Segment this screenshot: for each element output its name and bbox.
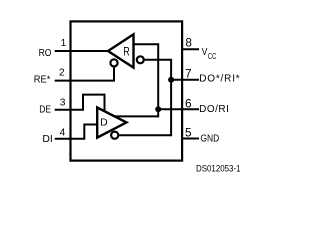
- wire pin7 DO*/RI*: [171, 79, 199, 81]
- wire pin5 GND: [182, 138, 199, 140]
- svg-text:DE: DE: [39, 105, 51, 116]
- wire pin8 VCC: [182, 48, 199, 50]
- svg-text:DS012053-1: DS012053-1: [196, 163, 241, 173]
- svg-text:2: 2: [59, 68, 65, 79]
- IC body U1: [71, 21, 183, 160]
- bubble D inverting output: [111, 132, 118, 139]
- svg-text:DI: DI: [42, 134, 52, 145]
- wire pin6 DO/RI: [158, 108, 199, 110]
- bubble RE enable: [110, 59, 117, 66]
- svg-text:GND: GND: [200, 133, 219, 144]
- wire R noninverting input to pin6 net: [113, 44, 158, 116]
- svg-text:R: R: [123, 44, 130, 58]
- svg-text:RO: RO: [39, 48, 52, 59]
- svg-text:3: 3: [60, 98, 66, 109]
- wire pin2 RE: [55, 68, 114, 81]
- svg-text:V: V: [202, 47, 208, 58]
- bubble R inverting input: [137, 56, 144, 63]
- svg-text:DO*/RI*: DO*/RI*: [199, 74, 240, 85]
- node junction pin7: [168, 77, 174, 83]
- svg-text:CC: CC: [208, 51, 217, 61]
- svg-text:DO/RI: DO/RI: [199, 104, 229, 115]
- svg-text:D: D: [100, 118, 108, 129]
- svg-text:7: 7: [185, 67, 192, 81]
- svg-text:4: 4: [60, 127, 66, 138]
- wire R inverting input to pin7 net: [119, 60, 171, 136]
- svg-text:6: 6: [185, 96, 192, 110]
- wire pin4 DI: [55, 125, 98, 139]
- op-amp R (receiver): [108, 34, 134, 67]
- wire pin1 RO: [55, 50, 109, 52]
- op-amp D (driver): [97, 108, 126, 138]
- svg-text:1: 1: [61, 38, 67, 49]
- svg-text:5: 5: [185, 125, 192, 139]
- svg-text:8: 8: [185, 35, 192, 49]
- wire pin3 DE: [55, 95, 105, 112]
- svg-text:RE*: RE*: [34, 75, 51, 86]
- node junction pin6: [155, 106, 161, 112]
